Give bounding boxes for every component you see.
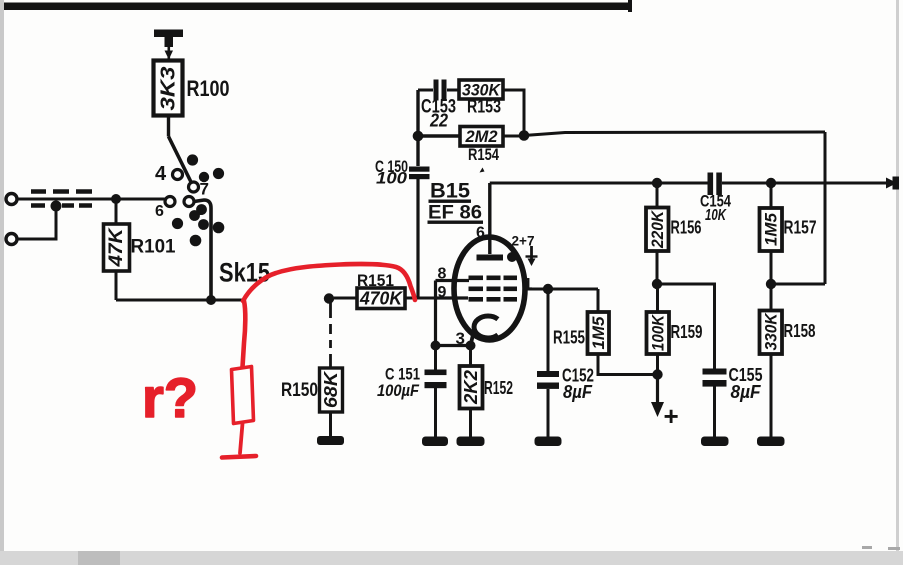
supply arrow + (656, 375, 659, 404)
svg-text:R150: R150 (281, 380, 318, 401)
wire feedback right vertical (824, 132, 827, 284)
wire pin 8 lead (436, 279, 470, 282)
resistor R159 (647, 312, 670, 354)
svg-text:10K: 10K (705, 207, 727, 224)
resistor R152 (460, 366, 483, 409)
wire R159 bottom lead (656, 354, 659, 375)
svg-text:R156: R156 (671, 218, 702, 238)
wire R156 top lead (656, 183, 659, 208)
capacitor C154 (708, 173, 714, 196)
wire switch wiper arm (169, 137, 193, 185)
wire anode output line (490, 182, 886, 185)
node R156/R159 junction (652, 279, 662, 289)
terminal top input jack (6, 194, 17, 205)
wire switch bottom bus (116, 299, 244, 302)
ground C155 (701, 437, 729, 447)
tube screen pins 2+7 tick (530, 246, 533, 261)
node switch bottom junction (206, 295, 216, 305)
svg-text:2M2: 2M2 (465, 127, 498, 146)
wire R150 top lead (329, 299, 332, 369)
svg-text:R159: R159 (671, 322, 703, 342)
svg-text:3: 3 (456, 329, 465, 348)
shield dashed line lower (31, 203, 92, 208)
resistor R156 (646, 208, 669, 252)
wire C153 to R153 (447, 89, 459, 92)
wire R155 bottom lead (598, 354, 658, 375)
wire pin 9 grid lead (436, 296, 468, 299)
capacitor C155 (703, 369, 727, 375)
svg-text:R155: R155 (553, 328, 585, 348)
wire C152 top lead (547, 289, 550, 372)
wire R100 top lead with arrow (168, 46, 171, 61)
mark near R154 (480, 168, 485, 173)
node pin3 left (431, 341, 441, 351)
svg-text:8µF: 8µF (563, 382, 593, 402)
scan edge bottom gray bar (0, 551, 903, 565)
resistor R158 (760, 311, 783, 355)
svg-text:8µF: 8µF (731, 382, 762, 402)
wire C155 branch (657, 284, 715, 369)
wire red resistor bottom lead (240, 424, 243, 454)
wire C152 bottom lead (547, 389, 550, 437)
node supply junction (652, 369, 662, 379)
svg-text:330K: 330K (762, 312, 781, 351)
svg-text:470K: 470K (359, 289, 404, 309)
svg-text:r?: r? (142, 366, 198, 429)
svg-text:2K2: 2K2 (461, 370, 481, 405)
switch contact input circle (165, 197, 175, 207)
svg-text:47K: 47K (106, 227, 127, 267)
ground R150 (317, 436, 344, 445)
capacitor C153 (434, 80, 439, 101)
svg-text:100µF: 100µF (377, 381, 420, 400)
svg-text:3K3: 3K3 (158, 67, 180, 111)
svg-text:7: 7 (200, 180, 209, 199)
ground R152 (457, 437, 485, 447)
svg-text:R154: R154 (468, 145, 499, 164)
svg-text:R157: R157 (784, 218, 817, 238)
node shield connection (51, 201, 62, 212)
ground C152 (535, 437, 562, 447)
svg-text:R151: R151 (357, 271, 394, 290)
wire red annotation curve to grid (243, 264, 415, 301)
tube grid g2 dashes row (469, 287, 484, 292)
wire input top (17, 198, 165, 201)
wire R101 bottom lead (115, 271, 118, 300)
resistor R150 (320, 368, 343, 412)
svg-text:1M5: 1M5 (589, 316, 608, 350)
svg-text:68K: 68K (321, 370, 341, 408)
resistor R157 (760, 208, 783, 251)
switch contact 4 circle (173, 170, 183, 180)
ground C151 (422, 437, 448, 447)
node anode/R156 junction (652, 178, 662, 188)
svg-text:2+7: 2+7 (512, 233, 535, 249)
wire C150/C153 left vertical (416, 90, 419, 166)
capacitor C151 (425, 370, 447, 376)
wire R156 bottom lead (656, 251, 659, 284)
node anode/R157 junction (766, 178, 776, 188)
wire switch output to bottom bus (194, 200, 211, 300)
terminal bottom input jack (6, 234, 17, 245)
svg-text:Sk15: Sk15 (219, 258, 270, 288)
wire R157 bottom lead (770, 251, 773, 284)
svg-text:EF 86: EF 86 (428, 203, 482, 224)
svg-text:+: + (664, 401, 679, 431)
node pin3 right (466, 341, 476, 351)
wire R155 top lead (597, 289, 600, 312)
svg-text:100K: 100K (649, 313, 668, 351)
svg-text:1M5: 1M5 (762, 212, 781, 246)
resistor R101 (104, 224, 130, 271)
wire R159 top lead (656, 284, 659, 312)
terminal R100 top bar (154, 30, 183, 38)
svg-text:R100: R100 (187, 76, 230, 101)
svg-text:8: 8 (438, 266, 447, 283)
svg-text:22: 22 (429, 111, 448, 131)
wire R153 right to junction (503, 90, 524, 136)
wire feedback top horizontal (524, 132, 825, 136)
scan edge left gray strip (0, 0, 4, 552)
top border line of schematic frame (4, 3, 632, 11)
node pin1/C152 junction (543, 284, 553, 294)
svg-text:6: 6 (155, 203, 164, 220)
svg-text:220K: 220K (648, 209, 667, 248)
wire pin 3 bottom link (436, 344, 471, 347)
wire feedback to R157/R158 junction (771, 283, 825, 286)
node R157/R158 junction (766, 279, 776, 289)
wire R152 top lead (469, 346, 472, 367)
resistor R151 (357, 288, 405, 309)
svg-text:100: 100 (376, 170, 408, 188)
wire C151 bottom lead (434, 388, 437, 437)
svg-text:6: 6 (476, 225, 485, 242)
switch stud dots cluster (172, 154, 224, 246)
wire R152 bottom lead (469, 409, 472, 438)
node feedback junction (519, 130, 530, 141)
wire R151 left lead (334, 297, 357, 300)
resistor R154 left lead (418, 134, 460, 137)
resistor R153 (459, 80, 503, 99)
tube anode plate bar (477, 255, 504, 261)
svg-text:330K: 330K (462, 81, 502, 100)
output arrow at right edge (886, 178, 897, 189)
resistor R154 (460, 127, 503, 147)
switch contact 7 circle (189, 182, 199, 192)
node on envelope for 2+7 (507, 252, 517, 262)
wire R154 right lead (503, 135, 524, 138)
node R150/R151 junction (324, 293, 334, 303)
wire R158 bottom lead (770, 354, 773, 437)
wire R151 right lead (405, 297, 436, 300)
tube cathode hook (474, 316, 498, 338)
shield dashed line upper (31, 189, 92, 194)
wire red branch down (243, 301, 246, 367)
wire C155 bottom lead (713, 387, 716, 438)
wire C150 bottom lead to grid (416, 178, 419, 298)
resistor R100 (154, 61, 183, 116)
wire R157 top lead (770, 183, 773, 208)
scan edge right gray line (896, 0, 899, 551)
wire R158 top lead (770, 284, 773, 311)
tube grid g1 dashes row (469, 276, 518, 302)
svg-text:R101: R101 (131, 237, 176, 258)
node input/R101 junction (111, 194, 121, 204)
ground R158 (757, 437, 785, 447)
svg-text:9: 9 (197, 202, 205, 219)
wire R100 bottom lead (167, 116, 170, 137)
wire cathode pin 3 lead (471, 328, 475, 346)
wire C151 top lead (434, 346, 437, 372)
svg-text:1: 1 (524, 276, 533, 293)
wire C153 top branch (418, 89, 433, 92)
wire anode pin 6 lead (488, 183, 491, 254)
wire R101 top lead (115, 199, 118, 224)
wire R150 bottom lead (329, 412, 332, 437)
capacitor C152 (537, 371, 559, 377)
svg-text:R158: R158 (784, 321, 816, 341)
wire pin 1 lead (523, 288, 598, 291)
svg-text:R152: R152 (484, 378, 513, 398)
wire shield to lower terminal (16, 206, 56, 239)
resistor R155 (588, 312, 610, 354)
ground red (222, 456, 256, 458)
resistor r? red box (232, 367, 254, 424)
svg-text:4: 4 (155, 163, 167, 185)
node C150/R154 junction (413, 131, 424, 142)
wire pin 8/9 vertical link (434, 281, 437, 346)
svg-text:9: 9 (438, 284, 447, 301)
tube B15 envelope (454, 237, 525, 340)
scan specks bottom right (862, 546, 900, 550)
capacitor C150 (409, 167, 430, 172)
svg-text:B15: B15 (430, 180, 470, 203)
tube grid g3 dashes row (469, 297, 484, 302)
switch contact output circle (184, 197, 194, 207)
